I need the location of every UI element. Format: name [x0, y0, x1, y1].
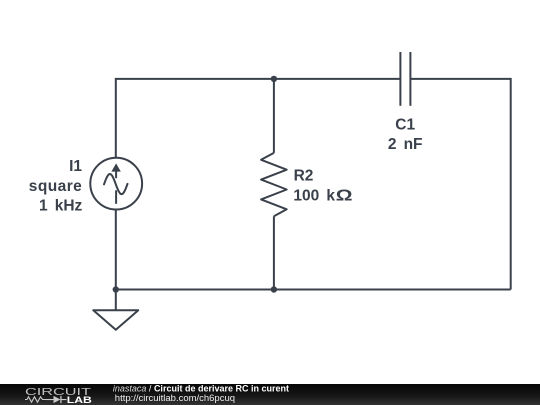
wire ground stub — [115, 290, 117, 311]
svg-text:square: square — [29, 178, 82, 195]
svg-text:LAB: LAB — [67, 395, 92, 405]
svg-text:100 k: 100 k — [293, 188, 335, 205]
svg-text:C1: C1 — [395, 117, 415, 134]
svg-text:http://circuitlab.com/ch6pcuq: http://circuitlab.com/ch6pcuq — [115, 393, 235, 403]
footer bar — [0, 384, 540, 405]
svg-text:inastaca / Circuit de derivare: inastaca / Circuit de derivare RC in cur… — [113, 384, 289, 394]
wire resistor branch lower — [273, 216, 275, 289]
CircuitLab logo diode — [47, 396, 67, 403]
wire resistor branch upper — [273, 79, 275, 153]
svg-text:R2: R2 — [294, 168, 314, 185]
wire top right segment from C1 — [410, 79, 510, 290]
node junction bottom left — [113, 286, 119, 292]
capacitor C1 — [400, 52, 410, 106]
svg-text:I1: I1 — [69, 158, 82, 175]
svg-text:1 kHz: 1 kHz — [39, 198, 83, 215]
svg-text:Ω: Ω — [336, 186, 353, 204]
wire top left segment — [116, 79, 274, 158]
resistor R2 — [261, 153, 287, 216]
svg-text:2 nF: 2 nF — [388, 136, 423, 153]
node junction bottom middle — [271, 286, 277, 292]
current source I1 — [90, 158, 142, 210]
wire left branch lower — [115, 210, 117, 290]
node junction top — [271, 76, 277, 82]
CircuitLab logo resistor squiggle — [25, 397, 47, 402]
wire bottom rail — [116, 289, 511, 291]
ground — [93, 310, 138, 330]
wire top middle segment to C1 — [274, 78, 401, 80]
